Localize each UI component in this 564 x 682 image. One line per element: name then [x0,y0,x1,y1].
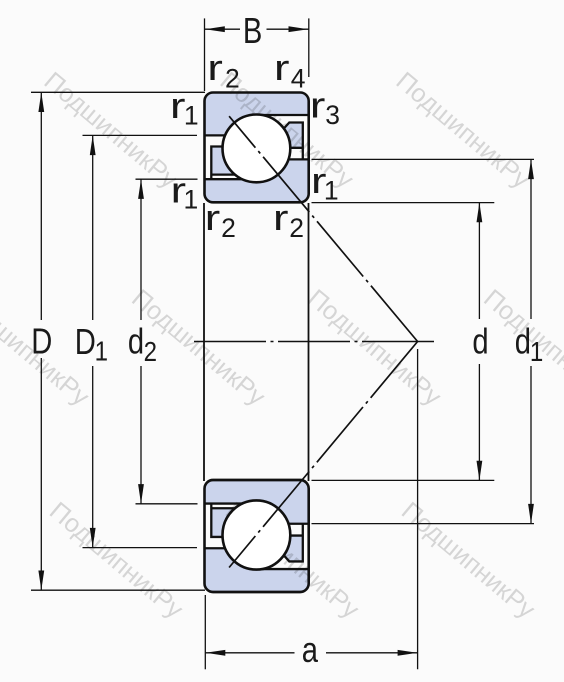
svg-text:1: 1 [530,335,543,367]
svg-text:2: 2 [225,64,240,94]
svg-text:d: d [515,322,531,363]
svg-text:B: B [243,11,262,52]
svg-text:2: 2 [144,335,157,367]
svg-text:1: 1 [95,335,108,367]
svg-text:d: d [472,322,488,363]
svg-text:2: 2 [289,213,304,243]
svg-text:4: 4 [291,64,306,94]
svg-text:a: a [302,630,319,671]
svg-text:1: 1 [324,175,339,205]
svg-text:1: 1 [184,185,199,215]
svg-text:r: r [207,47,223,88]
svg-text:1: 1 [184,100,199,130]
svg-text:3: 3 [325,100,340,130]
svg-text:2: 2 [221,213,236,243]
svg-text:d: d [128,322,144,363]
svg-text:r: r [205,197,221,238]
svg-text:D: D [31,321,52,362]
svg-text:D: D [75,322,96,363]
svg-text:r: r [273,197,289,238]
svg-text:r: r [310,85,326,126]
svg-text:r: r [274,47,290,88]
